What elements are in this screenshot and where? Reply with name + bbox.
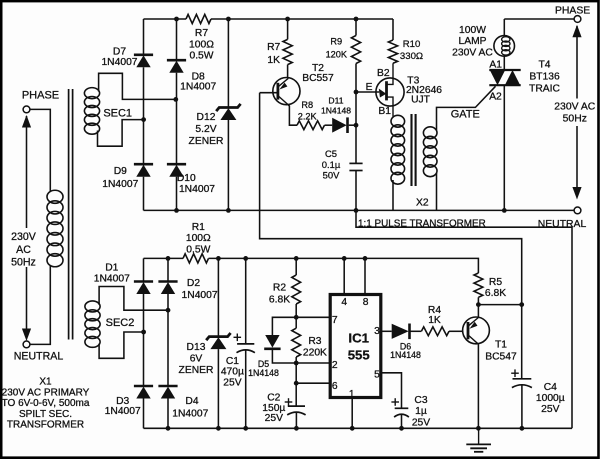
diode D5 branch upper: [272, 317, 296, 335]
junction bottom rail C1: [243, 426, 248, 431]
svg-text:230V AC: 230V AC: [554, 102, 596, 113]
X2 secondary winding: [423, 127, 437, 139]
junction SEC1-D7 node: [141, 117, 146, 122]
svg-text:TRAIC: TRAIC: [529, 83, 560, 94]
wire D7 column upper: [143, 19, 145, 55]
junction top rail R9: [354, 17, 359, 22]
junction rail D12: [226, 208, 231, 213]
wire D9 column lower: [143, 177, 145, 211]
NEUTRAL terminal (right): [574, 207, 581, 214]
svg-text:230V AC PRIMARY: 230V AC PRIMARY: [2, 387, 90, 398]
wire plus rail left: [144, 257, 184, 259]
wire C1 lower: [245, 350, 247, 429]
wire pin3 to D6: [381, 330, 392, 332]
svg-text:UJT: UJT: [411, 94, 431, 105]
diode D6 1N4148: [392, 324, 409, 339]
svg-text:1N4148: 1N4148: [321, 106, 351, 116]
svg-text:25V: 25V: [223, 377, 241, 388]
wire T2 collector to R8: [288, 105, 297, 125]
svg-text:R10: R10: [403, 39, 421, 50]
svg-text:D12: D12: [197, 112, 216, 123]
PHASE terminal (right): [574, 16, 581, 23]
wire D1 column upper: [143, 258, 145, 281]
svg-text:2: 2: [332, 360, 338, 371]
junction plus rail pin8: [363, 256, 368, 261]
wire common ground link: [356, 210, 572, 428]
svg-text:100Ω: 100Ω: [186, 233, 211, 244]
X2 primary winding: [391, 115, 405, 127]
svg-text:7: 7: [332, 315, 338, 326]
wire R10 upper: [392, 19, 394, 40]
X2 core line 2: [415, 114, 417, 186]
wire J1 to R3: [295, 317, 297, 328]
wire D1-D3 column: [143, 294, 145, 386]
wire D12 column lower: [227, 120, 229, 210]
svg-text:R7: R7: [267, 42, 280, 53]
capacitor C5 0.1u: [349, 162, 362, 164]
svg-text:GATE: GATE: [451, 108, 480, 120]
svg-text:1K: 1K: [267, 55, 280, 66]
junction bottom rail pin1: [350, 426, 355, 431]
svg-text:8: 8: [363, 297, 369, 308]
T3 emitter arrow: [356, 91, 379, 93]
svg-text:D4: D4: [185, 396, 198, 407]
diode D11 1N4148: [332, 118, 347, 133]
diode D10 1N4007: [167, 163, 186, 166]
svg-text:IC1: IC1: [348, 330, 369, 345]
wire R2 to J1: [295, 304, 297, 317]
capacitor C2 150u: [288, 405, 305, 407]
svg-text:100W: 100W: [459, 25, 486, 36]
svg-text:C1: C1: [226, 356, 239, 367]
SEC2 bottom lead: [99, 332, 144, 358]
svg-text:A2: A2: [489, 92, 502, 103]
junction bottom rail D4: [166, 426, 171, 431]
svg-text:R2: R2: [273, 283, 286, 294]
svg-text:D2: D2: [187, 278, 200, 289]
svg-text:R9: R9: [330, 36, 342, 46]
wire D2-D4 column: [167, 294, 169, 386]
svg-text:150µ: 150µ: [262, 403, 285, 414]
arrow line upper (right AC): [576, 26, 578, 99]
diode D7 1N4007: [134, 53, 153, 56]
wire D6 to R4: [410, 330, 421, 332]
transistor T3 2N2646 UJT: [376, 78, 404, 106]
wire R7-1K to T2: [287, 65, 289, 78]
wire triac to neutral rail: [503, 85, 505, 210]
svg-text:X1: X1: [39, 377, 52, 388]
svg-text:NEUTRAL: NEUTRAL: [538, 219, 587, 230]
wire lamp to triac: [503, 56, 505, 70]
SEC1 winding: [84, 88, 99, 99]
junction C4 node: [519, 302, 524, 307]
wire D12 column upper: [227, 19, 229, 107]
svg-text:X2: X2: [416, 197, 429, 208]
PHASE terminal (left): [23, 106, 30, 113]
svg-text:0.5W: 0.5W: [189, 51, 213, 62]
arrow line lower (left AC): [26, 267, 28, 329]
diode D8 1N4007: [167, 59, 186, 62]
plus sign C4: [511, 372, 519, 374]
svg-text:1000µ: 1000µ: [536, 393, 565, 404]
svg-text:50V: 50V: [323, 170, 340, 181]
junction rail D10: [174, 208, 179, 213]
svg-text:C2: C2: [267, 392, 280, 403]
SEC1 bottom lead: [98, 120, 144, 147]
junction SEC2-D2 node: [166, 308, 171, 313]
junction top rail D8: [174, 17, 179, 22]
wire pin2: [296, 362, 330, 364]
SEC2 top lead: [99, 287, 168, 311]
svg-text:1N4148: 1N4148: [390, 350, 421, 360]
wire D13 column lower: [217, 349, 219, 428]
transistor T2 BC557: [273, 78, 300, 105]
wire D11 to node: [349, 124, 356, 126]
svg-text:1K: 1K: [428, 315, 441, 326]
wire X2 primary bottom: [392, 180, 394, 210]
svg-text:1N4007: 1N4007: [94, 274, 130, 285]
svg-text:B1: B1: [378, 106, 391, 117]
wire pin8: [364, 258, 366, 294]
svg-text:T4: T4: [538, 59, 550, 70]
wire D7-D9 column: [143, 67, 145, 164]
plus sign C2: [285, 401, 293, 403]
diode D3 1N4007: [134, 385, 153, 388]
wire R9 upper: [355, 19, 357, 36]
svg-text:BC547: BC547: [485, 352, 517, 363]
wire C3 lower: [401, 414, 403, 428]
wire phase to lamp: [503, 19, 505, 36]
svg-text:5.2V: 5.2V: [195, 124, 216, 135]
svg-text:PHASE: PHASE: [555, 6, 590, 17]
arrowhead up (left AC): [22, 115, 31, 128]
capacitor C1 470u: [237, 343, 254, 345]
junction bottom rail T1: [476, 426, 481, 431]
wire top rail right: [211, 18, 393, 20]
wire phase top right: [504, 18, 574, 20]
svg-text:TO 6V-0-6V, 500ma: TO 6V-0-6V, 500ma: [2, 398, 90, 409]
SEC1 top lead: [99, 73, 176, 99]
svg-text:555: 555: [348, 347, 370, 362]
resistor R7 1K: [283, 39, 292, 64]
wire X2 secondary bottom: [436, 173, 438, 210]
wire R4 to T1: [449, 330, 463, 332]
resistor R2 6.8K: [292, 275, 301, 304]
junction D11 node: [354, 123, 359, 128]
wire C1 upper: [245, 258, 247, 344]
wire pin6: [296, 382, 330, 384]
junction plus rail D13: [216, 256, 221, 261]
wire T1 emitter: [477, 344, 479, 428]
svg-text:1N4007: 1N4007: [101, 57, 137, 68]
svg-text:6: 6: [332, 381, 338, 392]
svg-text:25V: 25V: [541, 404, 559, 415]
lamp filament coil: [502, 37, 510, 42]
svg-text:LAMP: LAMP: [458, 36, 486, 47]
svg-text:1N4148: 1N4148: [248, 368, 279, 378]
junction bottom rail C4: [520, 426, 525, 431]
svg-text:230V AC: 230V AC: [452, 47, 493, 58]
junction E node: [354, 90, 359, 95]
capacitor C3 1u: [395, 407, 409, 409]
svg-text:1N4007: 1N4007: [102, 179, 138, 190]
resistor R9 120K: [351, 36, 360, 64]
arrow line upper (left AC): [26, 116, 28, 228]
svg-text:100Ω: 100Ω: [189, 39, 214, 50]
wire top rail left: [144, 18, 187, 20]
X2 core line 1: [410, 114, 412, 186]
svg-text:C3: C3: [414, 395, 427, 406]
wire D3 column lower: [143, 399, 145, 429]
op-amp IC1 555 body: [330, 295, 381, 398]
svg-text:R7: R7: [195, 28, 208, 39]
junction top rail R7-1K: [285, 17, 290, 22]
svg-text:A1: A1: [489, 59, 502, 70]
svg-text:230V: 230V: [11, 231, 37, 243]
junction bottom rail C2: [294, 426, 299, 431]
svg-text:R3: R3: [308, 336, 321, 347]
wire node to C4: [478, 304, 521, 306]
lamp 100W: [494, 36, 515, 57]
X1 core line 2: [72, 89, 74, 340]
wire R8 to D11: [325, 124, 333, 126]
wire pin5 to C3: [381, 373, 402, 409]
resistor R3 220K: [292, 328, 301, 357]
svg-text:E: E: [366, 82, 373, 93]
svg-text:3: 3: [374, 326, 380, 337]
svg-text:PHASE: PHASE: [22, 90, 59, 102]
svg-text:SEC1: SEC1: [103, 107, 132, 119]
junction rail triac: [502, 208, 507, 213]
junction J3 (pin6 node): [294, 381, 299, 386]
svg-text:B2: B2: [377, 68, 390, 79]
wire neutral rail: [144, 209, 575, 211]
zener D13 6V: [206, 333, 230, 340]
svg-text:C4: C4: [544, 382, 557, 393]
svg-text:TRANSFORMER: TRANSFORMER: [7, 420, 84, 431]
junction J2 (pin2 node): [294, 361, 299, 366]
svg-text:R8: R8: [301, 100, 313, 110]
wire D11 node to C5: [355, 125, 357, 163]
junction SEC2-D1 node: [141, 330, 146, 335]
wire J2 to J3: [295, 363, 297, 383]
svg-text:1µ: 1µ: [415, 406, 427, 417]
wire D10 column lower: [176, 177, 178, 211]
junction plus rail pin4: [342, 256, 347, 261]
wire D8 column upper: [176, 19, 178, 60]
svg-text:1N4007: 1N4007: [182, 290, 218, 301]
wire bottom rail: [144, 427, 573, 429]
wire C2 lower: [295, 412, 297, 428]
resistor R8 2.2K: [297, 121, 324, 130]
triac T4 BT136: [489, 69, 520, 71]
resistor R4 1K: [421, 327, 449, 336]
svg-text:1N4007: 1N4007: [172, 408, 208, 419]
svg-text:D9: D9: [114, 166, 127, 177]
wire T1 collector: [477, 305, 479, 318]
svg-text:1N4007: 1N4007: [105, 406, 141, 417]
junction rail C5: [354, 208, 359, 213]
svg-text:4: 4: [341, 297, 347, 308]
svg-text:D11: D11: [328, 96, 343, 106]
junction bottom rail D13: [216, 426, 221, 431]
svg-text:R1: R1: [192, 222, 205, 233]
arrowhead down (left AC): [22, 329, 31, 342]
wire D13 column upper: [217, 258, 219, 335]
svg-text:ZENER: ZENER: [179, 365, 214, 376]
junction plus rail D2: [166, 256, 171, 261]
svg-text:AC: AC: [16, 244, 31, 256]
plus sign C1: [234, 336, 242, 338]
wire R5 to node: [477, 297, 479, 304]
junction top rail D12: [226, 17, 231, 22]
wire R7-1K upper: [287, 19, 289, 39]
wire neutral to primary: [30, 266, 50, 345]
wire D4 column lower: [167, 399, 169, 429]
wire C4 lower: [521, 385, 523, 428]
junction J1 (pin7 node): [294, 315, 299, 320]
NEUTRAL terminal (left): [23, 341, 30, 348]
svg-text:SPILT SEC.: SPILT SEC.: [19, 409, 72, 420]
svg-text:25V: 25V: [265, 413, 283, 424]
ground symbol: [478, 428, 480, 444]
svg-text:1N4007: 1N4007: [179, 184, 215, 195]
svg-text:50Hz: 50Hz: [563, 114, 587, 125]
wire R3 to J2: [295, 357, 297, 363]
wire plus rail to R5: [477, 258, 479, 273]
junction SEC1-D8 node: [173, 97, 178, 102]
svg-text:6.8K: 6.8K: [485, 288, 506, 299]
svg-text:NEUTRAL: NEUTRAL: [14, 351, 64, 363]
diode D5 branch lower: [272, 350, 296, 363]
arrowhead down (right AC): [572, 187, 581, 200]
resistor R1 100ohm: [183, 254, 208, 263]
svg-text:D10: D10: [177, 173, 196, 184]
diode D1 1N4007: [134, 280, 153, 283]
svg-text:6V: 6V: [190, 354, 203, 365]
svg-text:220K: 220K: [303, 347, 327, 358]
diode D2 1N4007: [158, 280, 177, 283]
resistor R10 330ohm: [388, 40, 397, 63]
junction T1 collector node: [476, 302, 481, 307]
X1 primary winding: [47, 190, 63, 203]
svg-text:D1: D1: [105, 263, 118, 274]
svg-text:120K: 120K: [326, 49, 348, 59]
wire pin7: [296, 316, 330, 318]
wire E node to D11 node: [355, 92, 357, 125]
wire R9 to E node: [355, 64, 357, 93]
wire pin1: [351, 398, 353, 429]
wire D2 column upper: [167, 258, 169, 281]
resistor R7 100ohm: [186, 14, 211, 23]
svg-text:470µ: 470µ: [221, 367, 244, 378]
junction bottom rail C3: [399, 426, 404, 431]
wire X2 secondary to gate: [437, 86, 496, 130]
junction plus rail C1: [243, 256, 248, 261]
svg-text:T1: T1: [495, 340, 507, 351]
capacitor C4 1000u: [513, 378, 532, 380]
svg-text:C5: C5: [325, 148, 337, 159]
wire T2 base: [260, 92, 278, 94]
zener D12 5.2V: [216, 104, 240, 111]
svg-text:BC557: BC557: [302, 73, 334, 84]
svg-text:330Ω: 330Ω: [400, 51, 423, 62]
resistor R5 6.8K: [474, 273, 483, 297]
svg-text:25V: 25V: [412, 417, 430, 428]
SEC2 winding: [85, 301, 100, 312]
svg-text:SEC2: SEC2: [106, 317, 135, 329]
wire T2 base to T1 collector: [260, 93, 522, 305]
arrow line lower (right AC): [576, 126, 578, 189]
diode D4 1N4007: [158, 385, 177, 388]
svg-text:ZENER: ZENER: [189, 136, 224, 147]
wire C4 upper: [521, 305, 523, 379]
svg-text:0.5W: 0.5W: [186, 244, 210, 255]
arrowhead up (right AC): [572, 25, 581, 38]
wire phase to primary: [30, 109, 50, 191]
svg-text:5: 5: [374, 370, 380, 381]
svg-text:1N4007: 1N4007: [180, 82, 216, 93]
wire pin4: [343, 258, 345, 294]
svg-text:R5: R5: [489, 277, 502, 288]
wire J3 to C2: [295, 383, 297, 406]
svg-text:BT136: BT136: [529, 71, 560, 82]
svg-text:2.2K: 2.2K: [298, 112, 318, 122]
diode D5 1N4148: [265, 335, 279, 348]
svg-text:D13: D13: [187, 342, 206, 353]
diode D9 1N4007: [134, 163, 153, 166]
wire D8-D10 column: [176, 73, 178, 165]
svg-text:0.1µ: 0.1µ: [322, 159, 341, 170]
svg-text:50Hz: 50Hz: [11, 257, 36, 269]
svg-text:6.8K: 6.8K: [269, 295, 290, 306]
plus sign C3: [391, 401, 399, 403]
wire C5 to rail: [355, 171, 357, 211]
transistor T1 BC547: [463, 317, 490, 344]
wire plus rail right: [209, 257, 479, 259]
wire R2 upper: [295, 258, 297, 275]
junction plus rail R2: [294, 256, 299, 261]
X1 core line 1: [68, 89, 70, 340]
